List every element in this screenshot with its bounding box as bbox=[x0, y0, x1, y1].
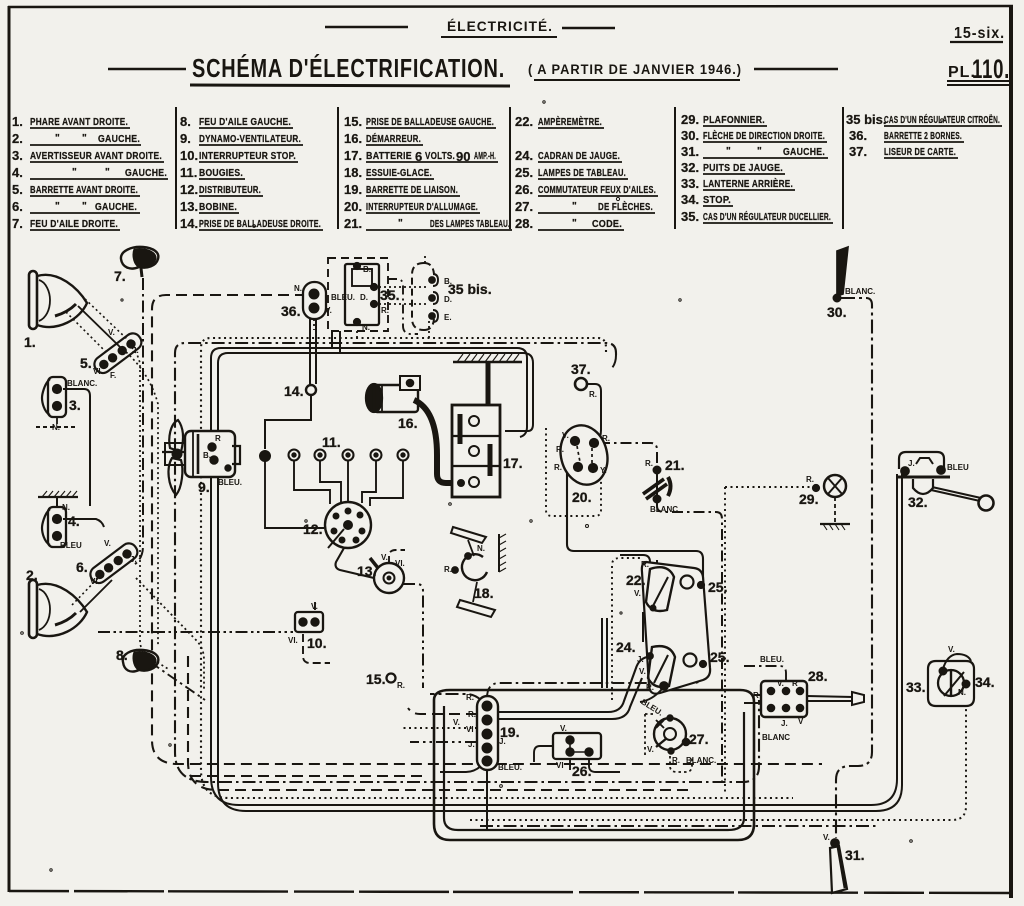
svg-text:VOLTS.: VOLTS. bbox=[425, 151, 455, 162]
svg-text:V.: V. bbox=[562, 431, 569, 440]
svg-text:6.: 6. bbox=[12, 199, 23, 214]
svg-text:ÉLECTRICITÉ.: ÉLECTRICITÉ. bbox=[447, 19, 553, 34]
svg-text:33.: 33. bbox=[681, 176, 699, 191]
svg-text:35.: 35. bbox=[380, 287, 399, 303]
svg-text:VI.: VI. bbox=[93, 367, 103, 376]
svg-text:J.: J. bbox=[781, 719, 788, 728]
svg-text:24.: 24. bbox=[515, 148, 533, 163]
svg-text:R: R bbox=[215, 434, 221, 443]
svg-text:ESSUIE-GLACE.: ESSUIE-GLACE. bbox=[366, 168, 432, 179]
svg-text:33.: 33. bbox=[906, 679, 925, 695]
svg-text:10.: 10. bbox=[180, 148, 198, 163]
svg-text:13.: 13. bbox=[357, 563, 376, 579]
svg-text:32.: 32. bbox=[908, 494, 927, 510]
svg-text:VI: VI bbox=[466, 725, 474, 734]
svg-text:26.: 26. bbox=[515, 182, 533, 197]
svg-text:F.: F. bbox=[110, 371, 116, 380]
svg-text:BLANC.: BLANC. bbox=[845, 287, 875, 296]
svg-text:V.: V. bbox=[639, 667, 646, 676]
svg-text:PRISE DE BALLADEUSE GAUCHE.: PRISE DE BALLADEUSE GAUCHE. bbox=[366, 117, 494, 128]
svg-text:COMMUTATEUR FEUX D'AILES.: COMMUTATEUR FEUX D'AILES. bbox=[538, 185, 656, 196]
svg-text:15-six.: 15-six. bbox=[954, 25, 1005, 42]
svg-text:": " bbox=[757, 146, 762, 157]
svg-text:2.: 2. bbox=[26, 567, 38, 583]
svg-text:BLEU: BLEU bbox=[60, 541, 82, 550]
svg-text:6.: 6. bbox=[76, 559, 88, 575]
svg-text:DE FLÈCHES.: DE FLÈCHES. bbox=[598, 200, 653, 213]
svg-text:E.: E. bbox=[444, 313, 452, 322]
svg-text:BLEU.: BLEU. bbox=[218, 478, 242, 487]
svg-text:22.: 22. bbox=[515, 114, 533, 129]
svg-text:BOUGIES.: BOUGIES. bbox=[199, 168, 243, 179]
svg-text:J.: J. bbox=[468, 740, 475, 749]
svg-text:30.: 30. bbox=[827, 304, 846, 320]
svg-text:R.: R. bbox=[672, 756, 680, 765]
svg-text:8.: 8. bbox=[116, 647, 128, 663]
svg-text:V.: V. bbox=[777, 679, 784, 688]
svg-text:V.: V. bbox=[453, 718, 460, 727]
svg-text:BLANC.: BLANC. bbox=[67, 379, 97, 388]
svg-text:R.: R. bbox=[554, 463, 562, 472]
svg-text:11.: 11. bbox=[322, 434, 341, 450]
svg-text:B.: B. bbox=[203, 451, 211, 460]
svg-text:9.: 9. bbox=[198, 479, 210, 495]
svg-text:9.: 9. bbox=[180, 131, 191, 146]
svg-text:J.: J. bbox=[132, 346, 139, 355]
svg-text:D.: D. bbox=[360, 293, 368, 302]
svg-text:BLANC: BLANC bbox=[762, 733, 790, 742]
svg-text:19.: 19. bbox=[344, 182, 362, 197]
svg-text:3.: 3. bbox=[69, 397, 81, 413]
svg-text:3.: 3. bbox=[12, 148, 23, 163]
svg-text:R.: R. bbox=[468, 710, 476, 719]
svg-text:8.: 8. bbox=[180, 114, 191, 129]
svg-text:V.: V. bbox=[311, 602, 318, 611]
svg-text:GAUCHE.: GAUCHE. bbox=[125, 168, 167, 179]
svg-text:DYNAMO-VENTILATEUR.: DYNAMO-VENTILATEUR. bbox=[199, 134, 301, 145]
svg-text:31.: 31. bbox=[845, 847, 864, 863]
svg-text:": " bbox=[572, 201, 577, 212]
svg-text:14.: 14. bbox=[180, 216, 198, 231]
svg-text:B.: B. bbox=[363, 265, 371, 274]
svg-text:": " bbox=[82, 133, 87, 144]
svg-text:110.: 110. bbox=[972, 54, 1010, 84]
svg-text:INTERRUPTEUR STOP.: INTERRUPTEUR STOP. bbox=[199, 151, 296, 162]
svg-text:BOBINE.: BOBINE. bbox=[199, 202, 237, 213]
svg-text:35 bis.: 35 bis. bbox=[846, 112, 886, 127]
svg-text:N.: N. bbox=[362, 323, 370, 332]
svg-text:PUITS DE JAUGE.: PUITS DE JAUGE. bbox=[703, 163, 783, 174]
svg-text:R.: R. bbox=[466, 693, 474, 702]
svg-text:4.: 4. bbox=[12, 165, 23, 180]
svg-text:1.: 1. bbox=[12, 114, 23, 129]
svg-text:STOP.: STOP. bbox=[703, 195, 731, 206]
svg-text:R: R bbox=[792, 679, 798, 688]
svg-text:R.: R. bbox=[381, 306, 389, 315]
svg-text:PHARE AVANT DROITE.: PHARE AVANT DROITE. bbox=[30, 117, 128, 128]
svg-text:31.: 31. bbox=[681, 144, 699, 159]
svg-text:R.: R. bbox=[444, 565, 452, 574]
svg-text:R.: R. bbox=[641, 560, 649, 569]
svg-text:15.: 15. bbox=[344, 114, 362, 129]
svg-text:10.: 10. bbox=[307, 635, 326, 651]
svg-text:32.: 32. bbox=[681, 160, 699, 175]
svg-text:DISTRIBUTEUR.: DISTRIBUTEUR. bbox=[199, 185, 261, 196]
svg-text:GAUCHE.: GAUCHE. bbox=[98, 134, 140, 145]
svg-text:19.: 19. bbox=[500, 724, 519, 740]
svg-text:36.: 36. bbox=[281, 303, 300, 319]
svg-text:15.: 15. bbox=[366, 671, 385, 687]
svg-text:Y.: Y. bbox=[600, 466, 607, 475]
svg-text:12.: 12. bbox=[180, 182, 198, 197]
svg-text:34.: 34. bbox=[681, 192, 699, 207]
svg-text:36.: 36. bbox=[849, 128, 867, 143]
svg-text:": " bbox=[72, 167, 77, 178]
svg-text:VI: VI bbox=[556, 761, 564, 770]
svg-text:20.: 20. bbox=[344, 199, 362, 214]
svg-text:34.: 34. bbox=[975, 674, 994, 690]
svg-text:R.: R. bbox=[646, 683, 654, 692]
svg-text:26.: 26. bbox=[572, 763, 591, 779]
svg-text:INTERRUPTEUR D'ALLUMAGE.: INTERRUPTEUR D'ALLUMAGE. bbox=[366, 202, 478, 213]
svg-text:V: V bbox=[798, 717, 804, 726]
svg-text:V.: V. bbox=[104, 539, 111, 548]
svg-text:24.: 24. bbox=[616, 639, 635, 655]
svg-text:J.: J. bbox=[908, 459, 915, 468]
svg-text:22.: 22. bbox=[626, 572, 645, 588]
svg-text:V.: V. bbox=[823, 833, 830, 842]
svg-text:FLÈCHE DE DIRECTION DROITE.: FLÈCHE DE DIRECTION DROITE. bbox=[703, 129, 825, 142]
svg-text:18.: 18. bbox=[474, 585, 493, 601]
svg-text:V.: V. bbox=[634, 589, 641, 598]
svg-text:J.: J. bbox=[637, 655, 644, 664]
svg-text:BATTERIE: BATTERIE bbox=[366, 151, 412, 162]
svg-text:": " bbox=[572, 218, 577, 229]
svg-text:CADRAN DE JAUGE.: CADRAN DE JAUGE. bbox=[538, 151, 620, 162]
svg-text:28.: 28. bbox=[515, 216, 533, 231]
svg-text:LANTERNE ARRIÈRE.: LANTERNE ARRIÈRE. bbox=[703, 177, 793, 190]
svg-text:R.: R. bbox=[645, 459, 653, 468]
svg-text:V.: V. bbox=[948, 645, 955, 654]
svg-text:5.: 5. bbox=[12, 182, 23, 197]
svg-text:25.: 25. bbox=[708, 579, 727, 595]
svg-text:18.: 18. bbox=[344, 165, 362, 180]
svg-text:7.: 7. bbox=[12, 216, 23, 231]
svg-text:": " bbox=[726, 146, 731, 157]
svg-text:21.: 21. bbox=[665, 457, 684, 473]
svg-text:( A PARTIR DE JANVIER 1946.): ( A PARTIR DE JANVIER 1946.) bbox=[528, 62, 742, 77]
svg-text:": " bbox=[82, 201, 87, 212]
svg-text:BLEU.: BLEU. bbox=[498, 763, 522, 772]
svg-text:GAUCHE.: GAUCHE. bbox=[95, 202, 137, 213]
svg-text:": " bbox=[55, 201, 60, 212]
svg-text:21.: 21. bbox=[344, 216, 362, 231]
svg-text:": " bbox=[398, 218, 403, 229]
svg-text:35 bis.: 35 bis. bbox=[448, 281, 492, 297]
svg-text:R.: R. bbox=[806, 475, 814, 484]
svg-text:VI.: VI. bbox=[90, 577, 100, 586]
svg-text:27.: 27. bbox=[689, 731, 708, 747]
svg-text:BLEU: BLEU bbox=[947, 463, 969, 472]
svg-text:J.: J. bbox=[130, 555, 137, 564]
svg-text:SCHÉMA D'ÉLECTRIFICATION.: SCHÉMA D'ÉLECTRIFICATION. bbox=[192, 53, 505, 83]
svg-text:27.: 27. bbox=[515, 199, 533, 214]
svg-text:V.: V. bbox=[381, 553, 388, 562]
svg-text:FEU D'AILE GAUCHE.: FEU D'AILE GAUCHE. bbox=[199, 117, 291, 128]
svg-text:28.: 28. bbox=[808, 668, 827, 684]
svg-text:7.: 7. bbox=[114, 268, 126, 284]
svg-text:17.: 17. bbox=[344, 148, 362, 163]
svg-text:4.: 4. bbox=[68, 513, 80, 529]
svg-text:17.: 17. bbox=[503, 455, 522, 471]
svg-text:AVERTISSEUR AVANT DROITE.: AVERTISSEUR AVANT DROITE. bbox=[30, 151, 162, 162]
svg-text:11.: 11. bbox=[180, 165, 197, 180]
svg-text:25.: 25. bbox=[710, 649, 729, 665]
svg-text:12.: 12. bbox=[303, 521, 322, 537]
svg-text:PLAFONNIER.: PLAFONNIER. bbox=[703, 115, 765, 126]
svg-text:VI.: VI. bbox=[288, 636, 298, 645]
svg-text:29.: 29. bbox=[681, 112, 699, 127]
svg-text:29.: 29. bbox=[799, 491, 818, 507]
svg-text:R.: R. bbox=[589, 390, 597, 399]
svg-text:N.: N. bbox=[294, 284, 302, 293]
svg-text:R.: R. bbox=[397, 681, 405, 690]
svg-text:GAUCHE.: GAUCHE. bbox=[783, 147, 825, 158]
svg-text:AMP.-H.: AMP.-H. bbox=[474, 151, 496, 162]
svg-text:BLANC: BLANC bbox=[650, 505, 678, 514]
svg-text:DES LAMPES TABLEAU.: DES LAMPES TABLEAU. bbox=[430, 219, 510, 230]
svg-text:BARRETTE AVANT DROITE.: BARRETTE AVANT DROITE. bbox=[30, 185, 138, 196]
svg-text:DÉMARREUR.: DÉMARREUR. bbox=[366, 132, 421, 145]
svg-text:35.: 35. bbox=[681, 209, 699, 224]
svg-text:1.: 1. bbox=[24, 334, 36, 350]
svg-text:VI.: VI. bbox=[395, 559, 405, 568]
svg-text:FEU D'AILE DROITE.: FEU D'AILE DROITE. bbox=[30, 219, 118, 230]
svg-text:30.: 30. bbox=[681, 128, 699, 143]
svg-text:PRISE DE BALLADEUSE DROITE.: PRISE DE BALLADEUSE DROITE. bbox=[199, 219, 321, 230]
svg-text:LAMPES DE TABLEAU.: LAMPES DE TABLEAU. bbox=[538, 168, 626, 179]
svg-text:CAS D'UN RÉGULATEUR CITROËN.: CAS D'UN RÉGULATEUR CITROËN. bbox=[884, 113, 1000, 126]
svg-text:R: R bbox=[753, 691, 759, 700]
svg-text:14.: 14. bbox=[284, 383, 303, 399]
svg-text:LISEUR DE CARTE.: LISEUR DE CARTE. bbox=[884, 147, 956, 158]
svg-text:BARRETTE DE LIAISON.: BARRETTE DE LIAISON. bbox=[366, 185, 458, 196]
svg-text:13.: 13. bbox=[180, 199, 198, 214]
svg-text:5.: 5. bbox=[80, 355, 92, 371]
svg-text:BLEU.: BLEU. bbox=[331, 293, 355, 302]
svg-text:25.: 25. bbox=[515, 165, 533, 180]
svg-text:N.: N. bbox=[958, 688, 966, 697]
svg-text:R.: R. bbox=[602, 434, 610, 443]
svg-text:CODE.: CODE. bbox=[592, 219, 622, 230]
svg-text:20.: 20. bbox=[572, 489, 591, 505]
svg-text:R.: R. bbox=[556, 445, 564, 454]
svg-text:N.: N. bbox=[477, 544, 485, 553]
svg-text:16.: 16. bbox=[398, 415, 417, 431]
svg-text:2.: 2. bbox=[12, 131, 23, 146]
svg-text:AMPÈREMÈTRE.: AMPÈREMÈTRE. bbox=[538, 115, 602, 128]
svg-text:BLEU.: BLEU. bbox=[760, 655, 784, 664]
svg-text:V.: V. bbox=[647, 745, 654, 754]
svg-text:": " bbox=[55, 133, 60, 144]
svg-text:V.: V. bbox=[560, 724, 567, 733]
svg-text:16.: 16. bbox=[344, 131, 362, 146]
svg-text:CAS D'UN RÉGULATEUR DUCELLIER.: CAS D'UN RÉGULATEUR DUCELLIER. bbox=[703, 210, 831, 223]
svg-text:37.: 37. bbox=[571, 361, 590, 377]
svg-text:BLANC.: BLANC. bbox=[686, 756, 716, 765]
svg-text:BARRETTE 2 BORNES.: BARRETTE 2 BORNES. bbox=[884, 131, 962, 142]
svg-text:37.: 37. bbox=[849, 144, 867, 159]
svg-text:": " bbox=[105, 167, 110, 178]
svg-text:V.: V. bbox=[108, 328, 115, 337]
